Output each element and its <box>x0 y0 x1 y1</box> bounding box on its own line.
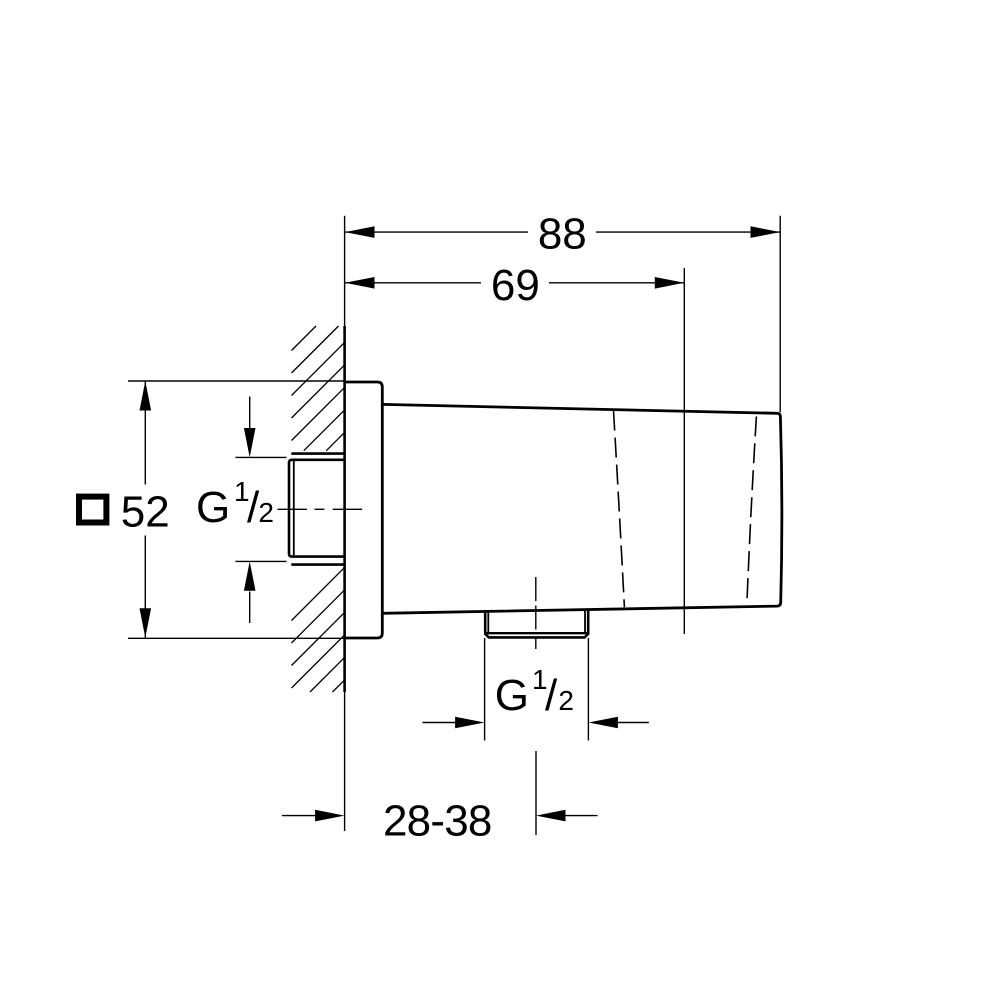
svg-text:G: G <box>196 483 230 532</box>
svg-text:88: 88 <box>538 210 587 259</box>
svg-text:28-38: 28-38 <box>383 796 492 845</box>
svg-text:G: G <box>495 671 529 720</box>
svg-text:52: 52 <box>121 488 170 537</box>
svg-text:2: 2 <box>258 497 274 528</box>
svg-text:1: 1 <box>532 664 548 695</box>
svg-text:69: 69 <box>491 261 540 310</box>
svg-text:2: 2 <box>558 685 574 716</box>
svg-text:1: 1 <box>234 476 250 507</box>
